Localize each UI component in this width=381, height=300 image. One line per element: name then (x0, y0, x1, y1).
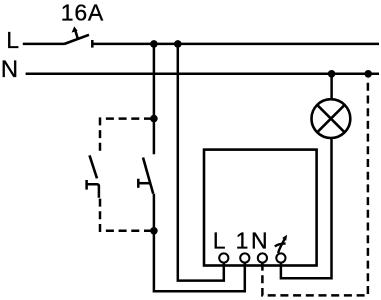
breaker actuation arrow (72, 26, 78, 38)
svg-text:N: N (1, 56, 18, 83)
junction dot L-b (174, 40, 182, 48)
wire from L-b down to terminal L (178, 44, 224, 281)
junction dot N-a (328, 70, 336, 78)
svg-text:L: L (213, 228, 226, 254)
terminal load symbol (lamp output arrow) (275, 235, 287, 253)
dashed neutral wire terminal N to N-b (262, 78, 368, 295)
push-button S2 blade (143, 158, 153, 194)
terminal circle N (pin) (258, 253, 267, 262)
dashed remote push-button branch (bottom run) (100, 198, 152, 231)
lamp E1 (312, 99, 351, 138)
wire from S2 down to terminal 1 (154, 194, 245, 292)
svg-text:N: N (251, 228, 268, 254)
junction dot L-a (150, 40, 158, 48)
terminal circle 1 (pin) (240, 253, 249, 262)
push-button S3 blade (90, 155, 98, 178)
svg-text:L: L (6, 27, 19, 53)
bus N wire (26, 73, 379, 76)
wire from L-a down to push-button S2 (153, 44, 156, 154)
push-button S3 actuator (86, 180, 99, 198)
breaker fixed contact tick (91, 40, 94, 48)
push-button S2 actuator (137, 179, 150, 188)
terminal circle L (pin) (219, 253, 228, 262)
wire terminal lamp-out to lamp E1 (281, 138, 332, 278)
device box U1 (204, 150, 317, 266)
svg-text:1: 1 (236, 228, 249, 254)
bus L wire left segment (23, 43, 65, 46)
terminal circle lamp-out (pin) (276, 253, 285, 262)
svg-text:16A: 16A (61, 0, 104, 25)
junction dot N-b (364, 70, 372, 78)
breaker switch S0 blade (65, 35, 90, 44)
junction dot remote-bottom (150, 227, 158, 235)
wire N-a down to lamp E1 (330, 74, 333, 100)
bus L wire right segment (92, 43, 379, 46)
junction dot remote-top (150, 115, 158, 123)
dashed remote push-button branch (top run) (100, 119, 152, 152)
